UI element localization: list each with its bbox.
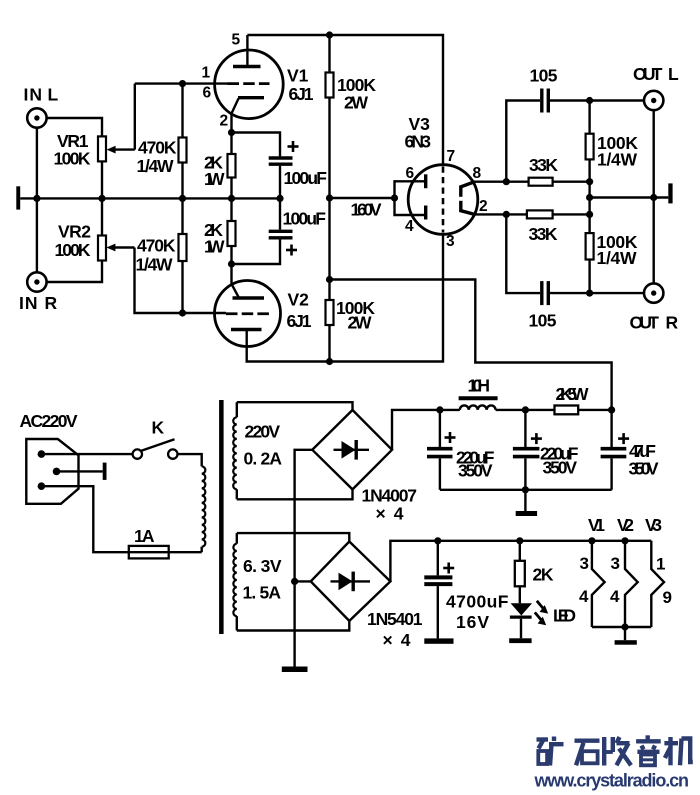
wire filter bottom rail (440, 489, 612, 491)
potentiometer VR1 100K (54, 131, 107, 198)
V2 grid dashes (226, 312, 269, 315)
resistor 100K 1/4W (R) (586, 214, 638, 293)
ground bus wire (20, 197, 280, 199)
svg-text:R: R (45, 293, 58, 313)
svg-text:1: 1 (202, 65, 211, 82)
node heater V2 (621, 537, 628, 544)
svg-text:V1: V1 (588, 515, 605, 535)
V1 cathode bar (238, 96, 264, 99)
node 220uF-2 top (522, 406, 529, 413)
svg-text:L: L (48, 85, 59, 105)
resistor 100K 2W (V2) (326, 198, 376, 362)
svg-text:IN: IN (19, 293, 38, 313)
svg-text:V3: V3 (645, 515, 662, 535)
svg-text:105: 105 (530, 66, 558, 86)
node out R (586, 290, 593, 297)
svg-text:V2: V2 (617, 515, 634, 535)
node B+ (326, 276, 333, 283)
V3 center dashed divider (442, 167, 445, 233)
resistor 2K5W (525, 384, 611, 414)
svg-text:4: 4 (579, 587, 589, 606)
svg-text:6J1: 6J1 (287, 311, 312, 331)
node 33K L right (586, 178, 593, 185)
wiper arrow VR1 (107, 84, 135, 154)
resistor 470K 1/4W (R) (136, 198, 187, 313)
svg-text:33K: 33K (529, 224, 558, 244)
wire IN R to VR2 (47, 261, 102, 283)
svg-text:8: 8 (473, 165, 482, 182)
tube V2 6J1 (215, 281, 312, 347)
V2 cathode lead (232, 264, 239, 297)
V1 pin 2 lead (220, 99, 239, 133)
wire heater rail (390, 541, 651, 582)
svg-text:1/4W: 1/4W (597, 150, 637, 170)
svg-text:5: 5 (232, 32, 241, 49)
svg-text:www.crystalradio.cn: www.crystalradio.cn (534, 771, 690, 791)
ground symbol heater (615, 627, 637, 645)
logo char kuang (537, 737, 564, 766)
transformer secondary 6.3V winding (233, 533, 281, 630)
svg-text:1N5401: 1N5401 (367, 609, 423, 629)
svg-text:470K: 470K (137, 236, 176, 256)
bridge rectifier 1N4007 x4 (312, 410, 417, 524)
V1 plate bar (233, 65, 261, 68)
capacitor 100uF (V2) (232, 198, 327, 264)
node 160V (326, 194, 333, 201)
bridge rectifier 1N5401 x4 (311, 542, 423, 651)
node pin2 105R (503, 211, 510, 218)
wire secondary2 top (237, 533, 349, 541)
input jack IN R (19, 198, 58, 313)
svg-text:9: 9 (663, 588, 672, 607)
svg-text:K: K (152, 418, 165, 438)
plug pin earth (53, 463, 107, 480)
resistor 2K 1W (V2) (204, 198, 236, 264)
node bus 100uF (276, 195, 283, 202)
svg-text:1A: 1A (134, 526, 155, 546)
V1 pin 5 lead (232, 32, 248, 67)
wire plate top rail (247, 35, 443, 165)
resistor 2K (LED) (515, 541, 554, 587)
wire IN L shield to bus (36, 128, 38, 199)
svg-text:4: 4 (405, 218, 414, 235)
svg-text:105: 105 (529, 311, 557, 331)
ground symbol main (282, 667, 308, 673)
svg-text:470K: 470K (138, 138, 177, 158)
svg-text:100K: 100K (55, 240, 91, 260)
svg-text:1/4W: 1/4W (597, 248, 637, 268)
node out L top (586, 97, 593, 104)
svg-text:1W: 1W (204, 169, 225, 189)
V1 grid dashes (228, 82, 270, 85)
V1 pin labels 1 6 (202, 65, 212, 102)
capacitor 4700uF 16V (424, 541, 508, 644)
svg-text:LED: LED (553, 606, 576, 626)
output jack OUT L (633, 64, 679, 198)
wire V1 grid (135, 82, 228, 84)
wire secondary1 bottom (237, 489, 353, 499)
node 47uF top (608, 406, 615, 413)
svg-text:6J1: 6J1 (289, 84, 314, 104)
svg-text:10H: 10H (468, 376, 491, 396)
svg-text:OUT: OUT (630, 313, 660, 333)
svg-text:2W: 2W (344, 93, 368, 113)
svg-text:16V: 16V (456, 612, 489, 632)
LED arrows (535, 601, 576, 626)
node heater V1 (588, 537, 595, 544)
input jack IN L (24, 85, 59, 128)
V3 grid bar pin 6 (406, 165, 426, 188)
transformer secondary 220V winding (233, 402, 282, 499)
node 470K-1 top (179, 80, 186, 87)
svg-text:6N3: 6N3 (405, 132, 432, 152)
svg-text:VR2: VR2 (58, 222, 91, 242)
svg-text:160V: 160V (351, 200, 382, 220)
svg-text:1: 1 (656, 555, 665, 574)
V3 grid bracket (395, 181, 426, 215)
output jack OUT R (630, 198, 679, 333)
svg-text:2K: 2K (533, 565, 554, 585)
svg-text:2W: 2W (348, 313, 372, 333)
svg-text:100uF: 100uF (284, 168, 328, 188)
heater V3 pins 1-9 (651, 541, 672, 627)
node bus VR (98, 195, 105, 202)
svg-text:100K: 100K (54, 149, 91, 169)
V3 grid bar pin 4 (405, 206, 426, 236)
wire secondary1 top (237, 402, 353, 410)
node 470K-2 bottom (179, 309, 186, 316)
logo char ji (664, 737, 692, 765)
watermark logo (537, 735, 693, 765)
node 33K R right (586, 211, 593, 218)
svg-text:AC220V: AC220V (20, 411, 78, 431)
svg-text:0. 2A: 0. 2A (244, 449, 283, 469)
node heater ground (621, 623, 628, 630)
resistor 33K (R) (527, 210, 590, 244)
capacitor 100uF (V1) (232, 133, 328, 199)
V2 plate bar (231, 328, 262, 331)
wire bridge2 minus (295, 580, 311, 582)
svg-text:1/4W: 1/4W (137, 156, 174, 176)
resistor 2K 1W (V1) (204, 133, 236, 199)
capacitor 47uF 350V (601, 410, 659, 490)
svg-text:100uF: 100uF (283, 209, 327, 229)
wire V3 pin 2 (475, 213, 527, 215)
node V3 grid bracket (391, 194, 398, 201)
svg-text:1. 5A: 1. 5A (243, 583, 282, 603)
svg-text:3: 3 (611, 554, 620, 573)
svg-text:350V: 350V (543, 458, 578, 478)
node bus 470K (179, 195, 186, 202)
node rail ground (522, 486, 529, 493)
V3 cathode pin 8 (460, 165, 482, 197)
wire output ground (590, 182, 669, 215)
potentiometer VR2 100K (55, 198, 107, 260)
wire bridge1 plus to filter (392, 410, 440, 450)
svg-text:×4: ×4 (376, 504, 404, 524)
node V2 plate (326, 358, 333, 365)
capacitor 220uF 350V (1) (427, 410, 495, 490)
node filter in (436, 406, 443, 413)
transformer primary winding (202, 466, 206, 546)
svg-text:4700uF: 4700uF (446, 592, 509, 612)
wire primary to fuse (200, 547, 202, 553)
switch K (133, 418, 178, 459)
resistor 470K 1/4W (L) (137, 84, 187, 199)
logo char shi (575, 741, 600, 766)
transformer core (219, 400, 224, 634)
svg-text:7: 7 (447, 148, 456, 165)
node top rail (326, 31, 333, 38)
svg-text:1W: 1W (204, 237, 225, 257)
svg-text:4: 4 (610, 587, 620, 606)
node 2K LED branch (516, 537, 523, 544)
logo char yin (636, 735, 661, 765)
heater V2 pins 3-4 (610, 541, 638, 627)
svg-text:6: 6 (203, 85, 212, 102)
wire B+ feed from PSU (330, 280, 612, 410)
tube V3 6N3 (405, 114, 478, 234)
svg-text:350V: 350V (629, 459, 659, 479)
svg-text:1/4W: 1/4W (136, 255, 173, 275)
heater V1 pins 3-4 (579, 541, 605, 627)
svg-text:V1: V1 (287, 66, 309, 86)
wire bridge1 minus to ground (295, 450, 313, 667)
svg-text:3: 3 (446, 233, 455, 250)
wire V3 pin 8 (475, 180, 529, 182)
wire switch to primary (178, 454, 202, 466)
wiper arrow VR2 (106, 244, 226, 313)
svg-text:3: 3 (580, 554, 589, 573)
svg-text:R: R (666, 313, 679, 333)
logo char shou (604, 737, 631, 766)
svg-text:2: 2 (479, 198, 488, 215)
svg-text:OUT: OUT (633, 64, 663, 84)
capacitor 220uF 350V (2) (513, 410, 579, 490)
svg-text:6: 6 (406, 165, 415, 182)
wire IN L to VR1 (47, 118, 102, 136)
inductor 10H (440, 376, 526, 410)
node bus 2K (228, 195, 235, 202)
resistor 33K (L) (529, 155, 590, 186)
LED (509, 586, 532, 643)
tube V1 6J1 (215, 50, 314, 119)
wire secondary2 bottom (237, 621, 349, 631)
svg-text:V2: V2 (288, 290, 310, 310)
chassis ground right (668, 183, 672, 203)
svg-text:1N4007: 1N4007 (362, 486, 418, 506)
capacitor 105 (L) (506, 66, 644, 182)
mains plug (26, 439, 78, 504)
V2 plate lead (247, 234, 443, 361)
node ground drop (291, 578, 298, 585)
node bus jackL (33, 195, 40, 202)
node out ground mid (586, 194, 593, 201)
chassis ground left (16, 186, 20, 209)
svg-text:220V: 220V (245, 422, 281, 442)
fuse 1A (129, 526, 202, 558)
wire heater bottom (592, 626, 651, 628)
capacitor 105 (R) (506, 214, 644, 330)
svg-text:350V: 350V (458, 461, 493, 481)
svg-text:2K5W: 2K5W (556, 384, 589, 404)
svg-text:×4: ×4 (383, 630, 411, 650)
svg-text:6. 3V: 6. 3V (243, 556, 282, 576)
svg-text:33K: 33K (529, 155, 558, 175)
resistor 100K 2W (V1) (326, 35, 377, 198)
wire 160V to V3 grids (330, 198, 395, 220)
node out ground jack (650, 194, 657, 201)
plug pin neutral (38, 482, 129, 552)
node pin8 105L (503, 178, 510, 185)
node 4700uF (434, 537, 441, 544)
svg-text:IN: IN (24, 85, 43, 105)
resistor 100K 1/4W (L) (586, 101, 639, 182)
V2 cathode bar (233, 296, 265, 299)
node V2 cathode (228, 260, 235, 267)
svg-text:L: L (668, 64, 679, 84)
ground symbol rail (516, 490, 537, 516)
node V1 cathode (228, 129, 235, 136)
svg-text:2: 2 (220, 113, 229, 130)
V3 cathode pin 2 (460, 198, 488, 215)
plug pin live (38, 450, 133, 458)
